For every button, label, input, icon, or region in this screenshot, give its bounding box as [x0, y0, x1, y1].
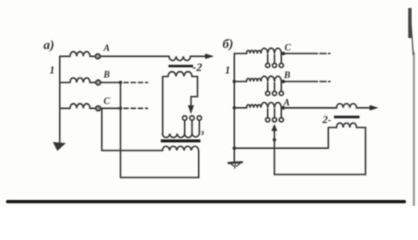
svg-text:В: В	[283, 71, 290, 81]
transformer T2' primary coil (loops up)	[283, 104, 371, 108]
wire: bottom loop	[274, 128, 365, 175]
svg-text:С: С	[285, 44, 292, 54]
arrow down to taps	[188, 106, 193, 114]
tap stem 1	[184, 120, 186, 133]
wire: T2 secondary left terminal down	[162, 77, 164, 134]
dashed wire B'	[320, 81, 330, 83]
tap stem 3	[198, 120, 200, 133]
arrow at bottom of left bus	[53, 142, 65, 150]
branch B' tapped inductor	[234, 76, 317, 81]
transformer T2' secondary coil (loops up)	[328, 123, 365, 128]
scan artifact: right border	[413, 52, 415, 206]
wire: A line to transformer	[100, 55, 169, 57]
dashed wire from B junction	[124, 82, 148, 84]
transformer T2 core bar	[169, 65, 194, 68]
wire: middle tap down with up arrow	[273, 128, 275, 175]
node dot A'	[282, 106, 286, 110]
transformer T2 secondary coil (loops up)	[163, 72, 198, 77]
wire: C node down and right to T3 lower winding	[102, 110, 163, 151]
svg-text:С: С	[104, 97, 111, 107]
arrow right on A' line	[370, 105, 378, 110]
svg-text:2-: 2-	[322, 115, 332, 126]
svg-text:а): а)	[44, 37, 55, 52]
ground symbol	[229, 161, 243, 164]
tap circle 2 of winding 3	[190, 116, 194, 120]
transformer T2' core bar	[334, 116, 360, 119]
wire: C line to junction	[101, 107, 121, 109]
tap stem 2	[191, 120, 193, 133]
svg-text:А: А	[103, 44, 110, 54]
wire: T2 secondary right terminal with step	[191, 77, 198, 108]
svg-text:А: А	[283, 99, 290, 109]
branch A' tapped inductor	[234, 103, 336, 108]
branch C' tapped inductor	[234, 48, 317, 53]
svg-text:з: з	[200, 127, 205, 137]
wire: left bus vertical	[59, 56, 61, 142]
svg-text:б): б)	[223, 36, 234, 51]
scan artifact: bottom rule	[6, 200, 406, 203]
junction dot bus-A	[233, 106, 236, 109]
arrow right on A line	[206, 54, 214, 59]
junction dot bus-ground wire	[233, 147, 236, 150]
winding 3 (tapped, u-loops)	[162, 134, 199, 138]
taps of C'	[268, 55, 282, 64]
transformer T3 lower winding (loops up)	[162, 146, 198, 150]
tap circle 1 of winding 3	[183, 116, 187, 120]
inductor branch B coil	[60, 78, 96, 83]
taps of B'	[268, 83, 282, 92]
node A terminal circle	[95, 54, 100, 59]
node B terminal circle	[96, 80, 101, 85]
junction dot B	[119, 81, 122, 84]
svg-text:1: 1	[50, 66, 55, 77]
dashed wire C'	[320, 53, 330, 55]
node C terminal circle	[96, 106, 101, 111]
wire: ground horizontal to T2' left terminal	[234, 128, 328, 149]
dashed wire from C junction	[124, 107, 148, 109]
svg-text:-2: -2	[193, 62, 203, 74]
wire: B line to junction	[101, 82, 121, 84]
node dot C'	[282, 52, 286, 56]
taps of A'	[268, 109, 282, 118]
svg-text:1: 1	[225, 66, 230, 77]
wire: right bus vertical	[233, 54, 235, 162]
svg-text:В: В	[103, 71, 110, 81]
junction dot on tap wire	[273, 138, 276, 141]
inductor branch A coil	[60, 52, 95, 57]
transformer T3 core bar	[161, 139, 201, 142]
node dot B'	[282, 80, 286, 84]
wire: lower winding right terminal down	[198, 151, 200, 178]
tap circle 3 of winding 3	[197, 116, 201, 120]
junction dot C	[119, 107, 122, 110]
wire: B junction down and right to bottom loop	[121, 83, 199, 178]
transformer T2 primary coil (loops down)	[169, 56, 207, 60]
inductor branch C coil	[60, 104, 96, 109]
junction dot bus-B	[233, 80, 236, 83]
